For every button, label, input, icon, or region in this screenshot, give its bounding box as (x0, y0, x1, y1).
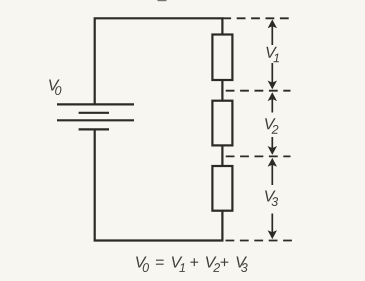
label V1 (266, 47, 279, 62)
resistor R1 (212, 35, 232, 81)
battery plate: short negative (79, 112, 109, 114)
resistor R3 (212, 166, 232, 211)
dashed extension line: node between R1 and R2 (226, 90, 291, 92)
dimension arrow V1 (262, 19, 286, 89)
wire: bottom from battery negative terminal to resistor chain (95, 129, 223, 240)
label V0 (49, 79, 61, 95)
label V3 (265, 190, 278, 206)
battery plate: short negative (79, 128, 109, 130)
battery V0 (two cells) (57, 104, 134, 129)
dashed extension line: node between R2 and R3 (226, 155, 291, 157)
battery plate: long positive (57, 119, 134, 121)
battery plate: long positive (57, 103, 134, 105)
wire: between resistor R2 and R3 (221, 145, 223, 166)
dashed extension line: top node (222, 17, 291, 19)
cropped caption fragment at top edge (158, 0, 167, 1)
dimension arrow V2 (262, 92, 286, 155)
resistor R2 (212, 101, 232, 146)
wire: top from battery positive terminal to resistor chain (95, 18, 223, 104)
wire: between resistor R1 and R2 (221, 80, 223, 101)
equation label V0 = V1 + V2 + V3 (136, 256, 248, 272)
dashed extension line: bottom node (226, 240, 293, 242)
label V2 (265, 118, 278, 133)
dimension arrow V3 (262, 158, 286, 239)
